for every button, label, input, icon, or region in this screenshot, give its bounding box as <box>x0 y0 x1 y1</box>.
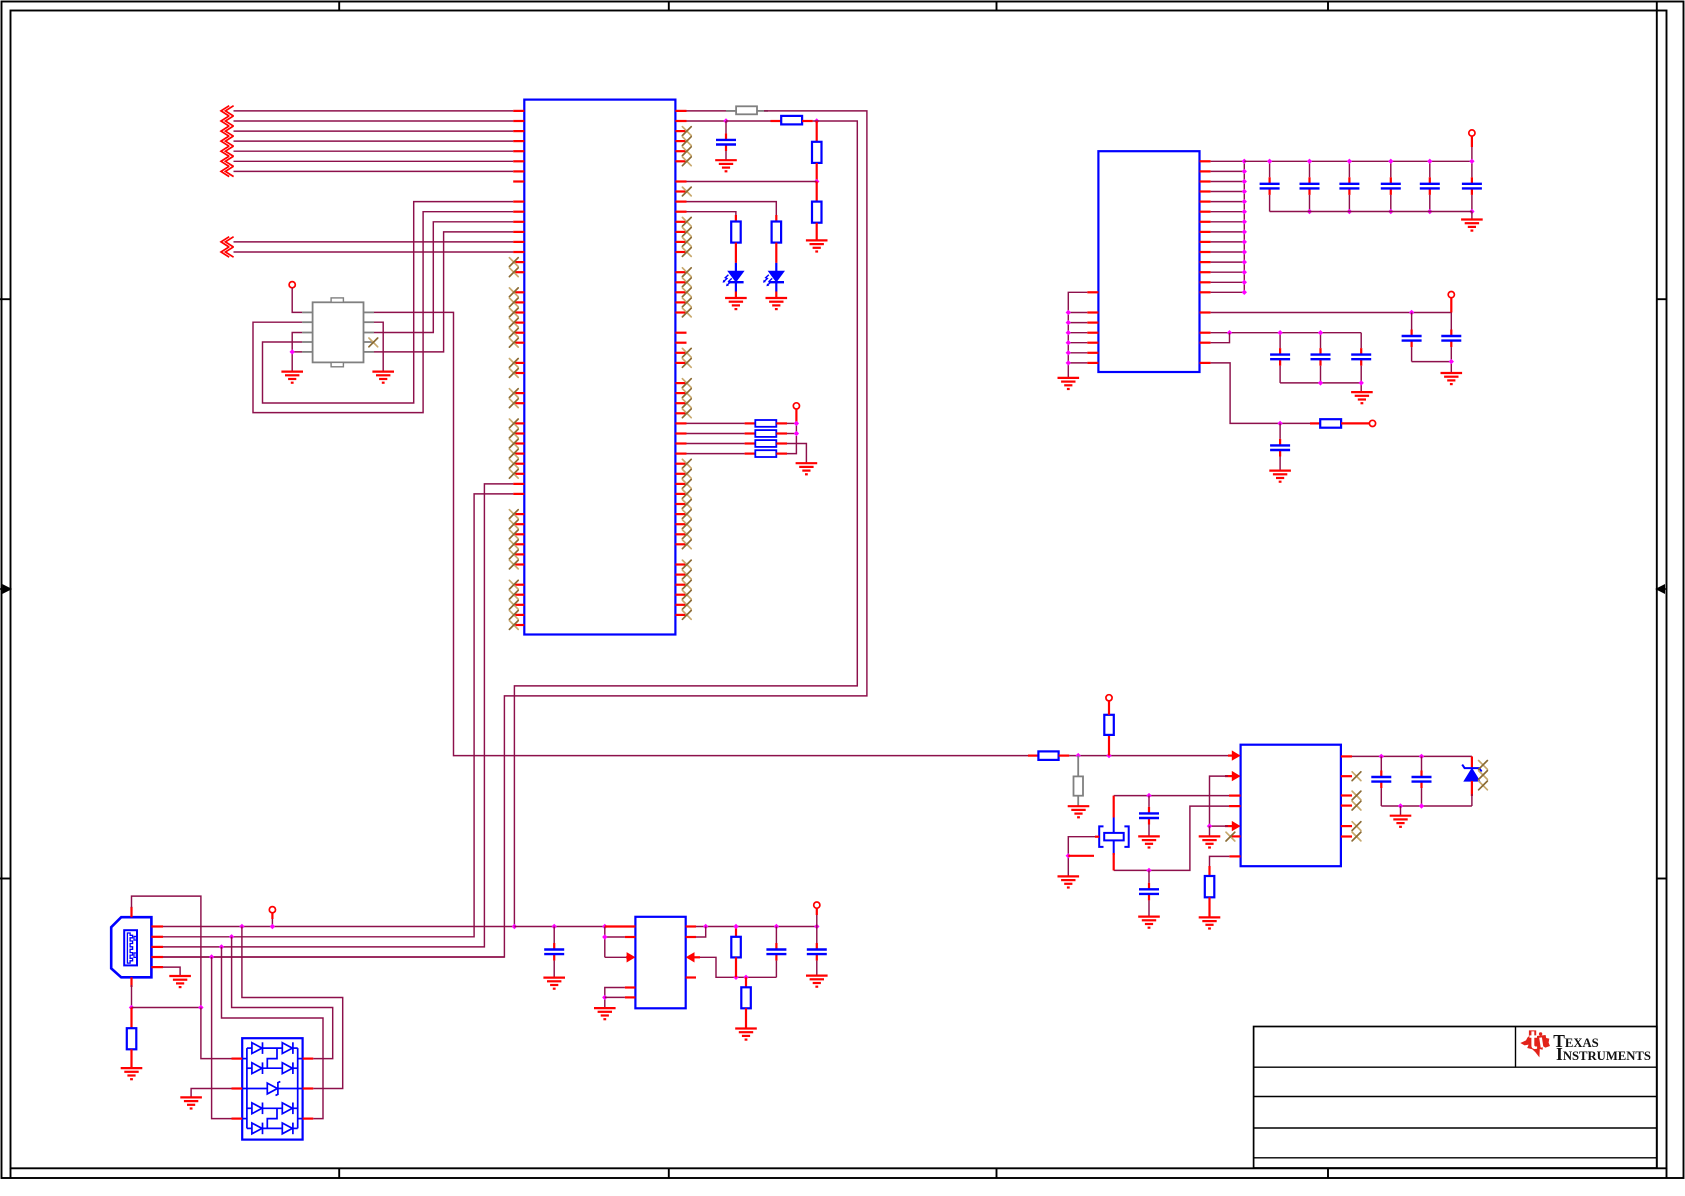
ground below C16 <box>806 976 828 987</box>
capacitor C13 <box>1270 423 1290 470</box>
junction R16 top <box>1076 753 1081 758</box>
resistor R15 (series input) <box>1028 751 1069 760</box>
wire U5 pin tie <box>1211 333 1230 343</box>
ground below R4 <box>806 240 828 251</box>
resistor R2 <box>771 116 813 125</box>
junction U4 out tie <box>703 924 708 929</box>
usb J1 shield top stub <box>130 907 132 917</box>
mcu U1 no-connect marks left <box>509 258 518 630</box>
junction VBUS at C14 <box>512 924 517 929</box>
power node top right <box>1469 130 1475 136</box>
usb connector J1 shell <box>111 917 151 977</box>
ti logo texas glyph <box>1520 1030 1550 1057</box>
junction gnd rail <box>1398 803 1403 808</box>
wire U3 output rail <box>1352 755 1472 757</box>
wire off-page 2a to U1 <box>234 241 514 243</box>
u4 out pin stub <box>686 925 696 927</box>
wire U5 pin to bypass rail <box>1211 332 1362 334</box>
u4 pin3R arrow <box>686 952 700 962</box>
wire U1 pin to divider <box>687 181 817 183</box>
ground below R9 <box>796 463 818 474</box>
ground below U4 <box>594 1008 616 1019</box>
wire U4 gnd pins <box>605 988 625 1009</box>
zener D4 <box>1462 756 1481 806</box>
ground at U3 inputs <box>1199 836 1221 847</box>
resistor R11 <box>1310 419 1369 428</box>
wire VCC to U2 pin1 <box>292 288 302 313</box>
wire D3 pinB left to ground <box>191 1089 231 1098</box>
zener nc marks <box>1479 761 1488 790</box>
tvs D3 left inner bus <box>246 1048 248 1128</box>
capacitor C20 <box>1412 756 1432 806</box>
wire power to output rail <box>816 908 818 926</box>
ic U2 pin leads <box>302 312 374 352</box>
ic U2 bottom notch <box>331 362 343 366</box>
power node at R7-R10 <box>793 403 799 409</box>
crystal case stub <box>1068 855 1094 857</box>
u3 pin3 stub <box>1229 794 1241 796</box>
junction feedback R14 <box>743 975 748 980</box>
wire R8 to vertical <box>787 433 796 435</box>
junction divider mid <box>814 179 819 184</box>
wire R1 to right vertical <box>163 111 867 957</box>
junction D- drop <box>229 934 234 939</box>
capacitors C10-C12 <box>1270 330 1371 383</box>
junction C14 <box>552 924 557 929</box>
wire bus from off-page group 1 to U1 <box>234 111 514 171</box>
junction at C1 <box>723 118 728 123</box>
wire off-page 2b to U1 <box>234 251 514 253</box>
wire U2 pin3 right to U1 <box>374 222 513 333</box>
u4 pin4R stub nc <box>686 976 696 978</box>
u3 pin1 arrow <box>1228 750 1241 760</box>
ti logo text texas <box>1553 1031 1599 1051</box>
capacitor C1 <box>716 121 736 160</box>
power node VCC at U2 <box>289 282 295 288</box>
wire J1 shield bottom to node <box>131 985 133 1008</box>
u3 pin7 stub <box>1229 855 1240 857</box>
regulator U4 body <box>635 917 685 1009</box>
title block outline <box>1254 1027 1657 1169</box>
resistor R16 (gray) <box>1074 756 1084 807</box>
power node VBUS <box>269 907 275 913</box>
junction C8 <box>1409 310 1414 315</box>
mcu U1 left pin stubs <box>513 111 524 625</box>
ground below capacitor bank <box>1461 220 1483 231</box>
led D2 <box>763 263 784 292</box>
ground below R14 <box>735 1029 757 1040</box>
ground below D2 <box>766 292 788 310</box>
tvs D3 right inner bus <box>297 1048 299 1128</box>
wire U1 pin to R6 <box>687 212 736 217</box>
junction R13 top <box>733 924 738 929</box>
wire R2 to left vertical <box>514 121 857 926</box>
junction crystal case <box>1066 853 1071 858</box>
resistor R4 (lower divider) <box>812 182 822 241</box>
wire U3 pin4 to crystal <box>1114 806 1229 870</box>
wire power to R7 R8 R10 <box>795 409 797 434</box>
sheet center arrow left <box>0 585 11 593</box>
wire capacitor bank bottom rail <box>1270 212 1472 220</box>
resistor R6 <box>731 215 741 263</box>
ic U5 body <box>1098 151 1199 372</box>
junction shield node <box>129 1005 134 1010</box>
junction C11 bottom <box>1318 380 1364 385</box>
ground below C12 <box>1351 392 1373 403</box>
u3 pin6 stub nc <box>1226 832 1241 841</box>
wire U1 pin to C1 junction <box>687 120 727 122</box>
power node R17 <box>1106 695 1112 701</box>
wire loop U2 pin4 to U1 <box>263 202 514 403</box>
resistor R17 (pullup) <box>1104 701 1114 756</box>
sheet zone ticks top/bottom <box>339 2 1328 1179</box>
off-page connector group 1 <box>221 106 234 177</box>
power node mid right <box>1448 292 1454 298</box>
ground below R16 <box>1068 806 1090 817</box>
wire gnd node drop <box>1209 826 1211 836</box>
wire loop U2 pin2 to U1 <box>253 212 513 413</box>
wire U3 pin3 to crystal <box>1114 795 1229 797</box>
wire C1 junction to R2 <box>726 120 771 122</box>
resistor R5 <box>772 215 782 263</box>
resistor R1 (gray) <box>726 106 768 114</box>
junction C13 <box>1277 421 1282 426</box>
wire crystal case to ground <box>1068 837 1099 877</box>
crystal Y1 <box>1099 796 1129 871</box>
junction R2-R3 <box>814 118 819 123</box>
wire shield to D3 pinA left <box>201 1008 232 1059</box>
title block logo cell divider <box>1515 1027 1517 1068</box>
sheet zone ticks left/right <box>0 299 1667 878</box>
junction C20 top <box>1419 754 1424 759</box>
junction at U2 ground node <box>290 349 295 354</box>
wire R7 to vertical <box>787 422 796 424</box>
wire C10-C12 bottom rail <box>1280 383 1361 392</box>
u3 pin5 arrow <box>1225 821 1241 831</box>
led D1 <box>723 263 744 292</box>
usb J1 pin stubs right <box>151 927 163 968</box>
ic U2 body <box>313 302 364 362</box>
mcu U1 no-connect marks right <box>682 127 691 620</box>
resistor R12 <box>127 1008 137 1069</box>
u3 right nc pins <box>1341 772 1361 841</box>
wire USB D+ line <box>163 484 513 947</box>
ground below crystal case <box>1058 876 1080 887</box>
usb J1 shield bottom stub <box>130 977 132 987</box>
wire USB ID line <box>163 956 504 958</box>
wire U5 right pins to VSS bus with junctions <box>1211 159 1247 295</box>
wire VBUS to D3 pinB right <box>242 927 343 1089</box>
u3 pin4 stub <box>1229 805 1241 807</box>
junction D+ drop <box>219 944 224 949</box>
ground below J1 gnd pin <box>169 976 191 987</box>
wire gnd rail drop <box>1400 806 1402 816</box>
capacitor C15 <box>766 927 786 978</box>
junction shield node right <box>198 1005 203 1010</box>
ground below C17 <box>1138 836 1160 847</box>
ground below D3 pinB <box>180 1097 202 1108</box>
ground below U2 left <box>281 372 303 383</box>
capacitor C14 <box>544 927 564 978</box>
junction C9 bottom <box>1449 359 1454 364</box>
capacitor C19 <box>1371 756 1391 806</box>
wire VBUS tap <box>271 913 273 927</box>
wire VSS bus rail to power <box>1244 160 1472 162</box>
capacitor C17 <box>1139 796 1159 837</box>
capacitor C16 <box>807 927 827 976</box>
junction VBUS drop <box>239 924 244 929</box>
junction U4 pin5 tie <box>602 995 607 1000</box>
junction C20 bottom <box>1419 803 1424 808</box>
wire power 2 drop <box>1450 298 1452 313</box>
resistor R18 <box>1205 866 1215 917</box>
ic U2 no-connect pin4 right <box>369 338 378 347</box>
wire VBUS to U4 <box>514 926 604 928</box>
wire ID to D3 pinC left <box>212 957 232 1119</box>
junction bypass rail entry <box>1227 330 1232 335</box>
junction VBUS tap <box>270 924 275 929</box>
wire U5 pin to RC filter <box>1211 363 1310 424</box>
ground below C9 <box>1441 373 1463 384</box>
tvs D3 pin links <box>242 1059 302 1119</box>
wire power to rail <box>1471 136 1473 161</box>
wire VBUS line <box>163 926 514 928</box>
u4 pin4 stub <box>625 986 636 988</box>
junction U4 input <box>602 924 607 929</box>
junction feedback R13 <box>733 975 738 980</box>
resistor R3 (upper divider) <box>812 121 822 182</box>
wire U3 pin7 to R18 <box>1210 856 1230 866</box>
ti logo text instruments <box>1556 1044 1651 1064</box>
title block rows <box>1254 1067 1657 1158</box>
ground below C14 <box>543 978 565 989</box>
junction R17 bottom <box>1106 753 1111 758</box>
junction C15 top <box>774 924 779 929</box>
wire R9 to ground <box>787 444 806 464</box>
wire U5 pin to power 2 <box>1211 312 1452 314</box>
junction C19 top <box>1379 754 1384 759</box>
wire D+ to D3 pinC right <box>222 947 324 1119</box>
tvs array D3 box <box>242 1038 302 1139</box>
wire U1 pin to R1 <box>687 110 736 112</box>
wire J1 shield top loop <box>132 896 201 1007</box>
ground below C1 <box>715 160 737 171</box>
power node R11 <box>1369 420 1375 426</box>
ground below R18 <box>1199 917 1221 928</box>
wire U4 input pins tie <box>605 927 626 958</box>
tvs D3 middle zener row <box>242 1082 302 1096</box>
junction R8 rail <box>794 431 799 436</box>
u4 pin1 stub <box>605 925 636 927</box>
usb connector J1 receptacle <box>124 930 137 965</box>
resistor network R7-R10 <box>687 420 788 457</box>
tvs D3 diodes rows <box>247 1042 298 1134</box>
junction U4 pin2 tie <box>602 934 607 939</box>
ic U2 top notch <box>331 298 343 302</box>
junctions capacitor bank bottom <box>1307 209 1475 214</box>
junction R7 rail <box>794 421 799 426</box>
tvs D3 pin stubs <box>232 1059 314 1119</box>
capacitor C18 <box>1139 870 1159 916</box>
junction ID drop <box>209 954 214 959</box>
wire U3 pin2 to gnd node <box>1210 776 1229 826</box>
u3 out pin stub <box>1341 755 1352 757</box>
mcu U1 right pin stubs <box>675 111 686 615</box>
wire R10 to vertical <box>787 436 796 454</box>
wire U1 pin to R5 <box>687 202 777 217</box>
wire J1 gnd pin <box>163 967 180 976</box>
ground below D1 <box>725 292 747 310</box>
wire U3 pin5 link <box>1210 825 1229 827</box>
ground below rail <box>1390 816 1412 827</box>
capacitor C8 <box>1402 313 1422 362</box>
wire zener bottom rail <box>1381 805 1472 807</box>
u4 pin2 stub <box>625 936 636 938</box>
wire U4 pin2R tie <box>686 927 706 938</box>
tvs D3 jog rows 1-2 <box>267 1048 277 1068</box>
wire D- to D3 pinA right <box>232 937 333 1059</box>
wire U2 pin1 right to U3 input <box>374 312 1028 755</box>
resistor R13 (upper) <box>731 927 741 978</box>
u3 pin2 arrow <box>1225 771 1241 781</box>
junction C18 top <box>1146 868 1151 873</box>
ground below U5 left bus <box>1058 378 1080 389</box>
wire USB D- line <box>163 494 513 937</box>
capacitor C9 <box>1441 313 1461 362</box>
mcu U1 body <box>524 100 675 635</box>
u4 pin5 stub <box>605 996 636 998</box>
resistor R14 (lower) <box>741 977 751 1028</box>
junction power rail <box>1469 159 1474 164</box>
u4 pin3 arrow <box>626 952 635 962</box>
wire U2 pin3 left to junction <box>292 333 302 352</box>
tvs D3 jog rows 4-5 <box>267 1108 277 1128</box>
power node U4 output <box>814 902 820 908</box>
ic U5 pin stubs <box>1087 161 1210 363</box>
sheet center arrow right <box>1657 585 1667 593</box>
wire R15 to U3 pin1 <box>1069 755 1228 757</box>
capacitor bank C2-C7 <box>1260 159 1482 212</box>
junction C16 top <box>814 924 819 929</box>
ground below C18 <box>1138 917 1160 928</box>
ground below C13 <box>1269 471 1291 482</box>
wire U4 output rail <box>696 926 817 928</box>
wire U2 pin5 left to ground <box>292 352 302 372</box>
wire U2 pin5 right to U1 <box>374 232 513 352</box>
wire U4 feedback <box>700 957 776 977</box>
sheet frame corner closures <box>11 1168 1667 1178</box>
off-page connector group 2 <box>221 237 234 258</box>
ic U3 body <box>1241 745 1341 867</box>
wire U5 left pins to ground bus <box>1066 292 1088 378</box>
ground below U2 right <box>372 372 394 383</box>
junction C17 top <box>1146 793 1151 798</box>
ground below R12 <box>121 1068 143 1079</box>
wire C8 C9 bottom rail <box>1412 362 1452 373</box>
sheet right zone line <box>1656 2 1658 1169</box>
wire U2 pin2 right to ground <box>374 322 383 371</box>
junction U3 gnd node <box>1207 823 1212 828</box>
wire shield node link <box>132 1007 201 1009</box>
